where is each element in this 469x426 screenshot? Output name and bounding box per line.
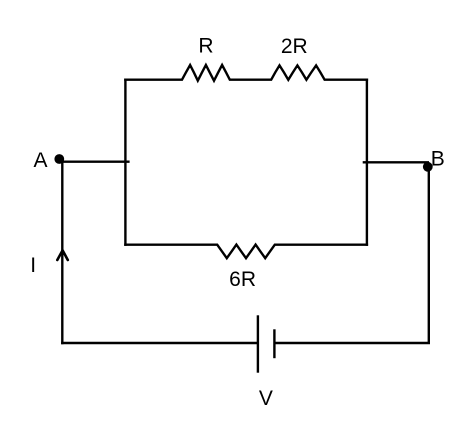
svg-text:6R: 6R xyxy=(229,268,256,291)
svg-text:B: B xyxy=(431,148,445,171)
svg-text:I: I xyxy=(30,254,36,277)
svg-text:R: R xyxy=(198,35,213,58)
svg-text:V: V xyxy=(259,387,273,410)
svg-text:2R: 2R xyxy=(281,35,308,58)
svg-text:A: A xyxy=(33,149,47,172)
